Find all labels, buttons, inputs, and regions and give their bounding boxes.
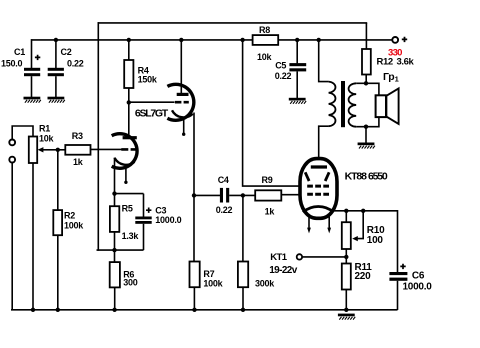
wire secondary bottom to speaker: [356, 117, 379, 127]
wire B+ rail down to C5: [296, 40, 298, 64]
svg-text:6SL7GT: 6SL7GT: [135, 108, 169, 120]
wire secondary top to speaker: [356, 83, 379, 95]
svg-text:C6: C6: [412, 270, 425, 281]
wire R4 bottom to V1a plate node: [128, 88, 130, 102]
resistor R12 (3.6k): [362, 49, 415, 75]
node C4/R9/300k junction: [241, 193, 245, 197]
wire feedback net: right vertical down to R12 top: [365, 23, 367, 50]
wire lower junction horizontal (feedback / R5 / C3 / R6): [97, 249, 144, 251]
svg-text:Гр: Гр: [383, 71, 394, 83]
wire KT88 cathode to R10/C6: [334, 210, 398, 212]
capacitor C3 (1000.0 electrolytic): [135, 194, 181, 251]
wire R5 bottom to lower junction: [114, 232, 116, 251]
resistor R8 (10k): [253, 25, 279, 62]
svg-text:1.3k: 1.3k: [122, 231, 140, 241]
wire KT1 terminal to R10/R11 junction: [302, 256, 346, 258]
wire from bottom input terminal to ground bus: [11, 163, 13, 311]
label + at supply terminal: [402, 37, 407, 42]
wire B+ rail right segment (R8 right to +330 terminal): [278, 39, 393, 41]
node screen feed junction on B+ rail: [240, 38, 244, 42]
wire C4/R9 node down to 300k resistor: [242, 195, 244, 261]
triode V1b cathode stub with dot: [182, 119, 185, 135]
svg-text:220: 220: [355, 271, 372, 282]
wire V1b output to C4 left plate: [194, 194, 220, 196]
junction secondary bottom-ground: [364, 125, 368, 129]
resistor R7 (100k): [190, 262, 224, 289]
junction R4-B+ rail: [127, 38, 131, 42]
wire 300k bottom to ground bus: [242, 287, 244, 310]
wire R6 bottom to ground bus: [114, 287, 116, 309]
svg-text:1000.0: 1000.0: [155, 215, 181, 225]
label KT88 6550: [345, 170, 388, 182]
svg-text:10k: 10k: [257, 52, 273, 62]
triode V1a envelope: [112, 134, 137, 169]
label KT1: [270, 252, 288, 263]
wire B+ rail down to transformer primary top: [319, 40, 329, 82]
wire C5 bottom to ground: [296, 71, 298, 98]
wire cathode junction down to R10: [345, 211, 347, 223]
wire C6 bottom to ground bus: [397, 281, 399, 310]
svg-text:C2: C2: [61, 47, 72, 57]
svg-text:R5: R5: [122, 204, 133, 214]
wire feedback net: top horizontal rail: [98, 22, 368, 24]
pentode V2 heater lead arrows: [307, 217, 331, 234]
capacitor C6 (1000.0 electrolytic): [389, 264, 432, 293]
node wiper junction (R1 wiper / R2 / R3): [56, 148, 60, 152]
label 6SL7GT: [135, 108, 169, 120]
capacitor C4 (0.22): [216, 175, 233, 215]
junction cathode-R10 wiper: [361, 209, 365, 213]
capacitor C2 (0.22): [48, 47, 84, 76]
wire R9 right to KT88 control grid: [281, 194, 307, 196]
triode V1b plate: [177, 93, 189, 96]
label Гр1: [383, 71, 399, 83]
wire screen feed down and right to KT88 screen grid: [243, 40, 307, 186]
triode V1a grid (dashed): [121, 148, 137, 151]
svg-text:150k: 150k: [138, 75, 158, 85]
wire B+ rail left segment (C1 to R8 left): [32, 39, 254, 41]
wire junction down to R6 top: [114, 250, 116, 262]
wire R2 bottom to ground bus: [57, 235, 59, 310]
capacitor C1 (150.0 electrolytic): [1, 47, 40, 76]
wire C1 bottom plate to ground: [31, 76, 33, 97]
junction secondary top-R12: [364, 81, 368, 85]
junction cathode-R10 top: [344, 209, 348, 213]
terminal +330V supply: [392, 37, 398, 43]
junction R7-ground bus: [192, 308, 196, 312]
svg-text:150.0: 150.0: [1, 58, 23, 68]
ground symbol under C5: [289, 98, 306, 104]
ground symbol under C1: [24, 97, 41, 103]
wire wiper junction down to R2 top: [57, 150, 59, 211]
resistor 300k: [238, 262, 275, 289]
resistor R3 (1k): [65, 131, 90, 167]
triode V1b envelope: [167, 84, 193, 120]
transformer T1 primary winding: [329, 82, 336, 127]
wire junction down to R5: [114, 194, 116, 207]
svg-text:1k: 1k: [73, 157, 84, 167]
capacitor C5 (0.22): [275, 60, 306, 80]
svg-text:1000.0: 1000.0: [403, 282, 433, 293]
wire V1b output lead down to C4 node: [193, 113, 195, 196]
terminal KT1 test point: [297, 254, 302, 259]
junction C5-B+ rail: [295, 38, 299, 42]
resistor R11 (220): [342, 262, 372, 289]
svg-text:19-22v: 19-22v: [269, 265, 298, 276]
svg-text:100k: 100k: [64, 220, 84, 230]
svg-text:100k: 100k: [203, 279, 223, 289]
svg-text:6550: 6550: [368, 170, 388, 182]
input terminal top: [9, 140, 15, 146]
svg-text:R1: R1: [39, 124, 50, 134]
wire secondary bottom to ground: [365, 127, 367, 143]
node V1a plate / V1b grid junction: [127, 100, 131, 104]
svg-text:R2: R2: [64, 210, 75, 220]
wire R1 bottom to ground bus: [32, 163, 34, 310]
resistor R5 (1.3k): [110, 204, 139, 242]
wire R12 bottom to secondary top: [365, 75, 367, 84]
node V1a cathode / R5 / C3 top junction: [112, 191, 116, 195]
resistor R9 (1k): [255, 175, 281, 216]
wire B+ rail down to C1 top plate: [31, 39, 33, 68]
triode V1a plate: [123, 136, 137, 139]
pentode V2 cathode: [303, 206, 334, 212]
pentode V2 beam plates: [305, 172, 329, 181]
wire V1a cathode lead down to R5 node: [114, 158, 116, 194]
svg-text:10k: 10k: [39, 134, 55, 144]
R10 wiper arm with arrow: [352, 211, 363, 241]
wire C2 bottom plate to ground: [55, 76, 57, 97]
svg-text:C4: C4: [218, 175, 229, 185]
resistor R10 (100 rheostat): [342, 222, 385, 249]
junction C2-B+ rail: [54, 38, 58, 42]
pentode V2 screen grid (dashed): [307, 185, 329, 188]
junction C4 left node: [192, 193, 196, 197]
wire R7 bottom to ground bus: [193, 287, 195, 310]
svg-text:300: 300: [123, 278, 138, 288]
wire C4 left node down to R7 top: [193, 195, 195, 261]
pentode V2 plate: [311, 165, 327, 168]
svg-text:R8: R8: [259, 25, 270, 35]
transformer T1 secondary winding: [349, 83, 357, 126]
svg-text:330: 330: [388, 47, 402, 58]
svg-text:1: 1: [395, 75, 399, 84]
junction R1-ground bus: [31, 308, 35, 312]
resistor R4 (150k): [124, 60, 158, 88]
resistor R6 (300): [110, 262, 138, 288]
wire V1b plate lead up to B+ rail: [180, 40, 182, 93]
svg-text:300k: 300k: [255, 279, 275, 289]
resistor R1 (10k volume potentiometer): [29, 124, 55, 164]
node KT1 test point junction: [344, 255, 348, 259]
transformer T1 core: [341, 81, 345, 127]
svg-text:0.22: 0.22: [275, 71, 292, 81]
wire from top input terminal to R1 top: [12, 126, 33, 139]
wire transformer primary bottom to KT88 plate: [319, 126, 329, 166]
R1 wiper arrow: [38, 147, 58, 152]
svg-text:KT1: KT1: [270, 252, 288, 263]
triode V1b cathode: [172, 110, 193, 117]
svg-text:0.22: 0.22: [216, 205, 233, 215]
wire R3 right to triode V1a grid: [91, 148, 122, 150]
wire B+ rail down to C2 top plate: [55, 40, 57, 68]
svg-text:R9: R9: [262, 175, 273, 185]
wire B+ rail down to R4 top: [128, 40, 130, 60]
svg-text:1k: 1k: [265, 206, 276, 216]
speaker Гр1 cone: [386, 88, 398, 124]
wire C4 right plate to R9 node: [229, 194, 255, 196]
label 330 (red): [388, 47, 402, 58]
triode V1a cathode stub with dot: [124, 167, 127, 184]
wire wiper junction to R3 left: [58, 149, 66, 151]
junction R2-ground bus: [56, 308, 60, 312]
junction 300k-ground bus: [241, 308, 245, 312]
svg-text:R3: R3: [72, 131, 83, 141]
svg-text:100: 100: [367, 235, 384, 246]
junction V1b plate-B+ rail: [179, 38, 183, 42]
wire R11 bottom to ground bus: [345, 290, 347, 310]
junction transformer primary-B+ rail: [317, 38, 321, 42]
wire R10 bottom to KT1 node: [345, 249, 347, 257]
speaker Гр1 magnet: [376, 95, 386, 117]
junction R11-ground bus: [344, 308, 348, 312]
svg-text:C5: C5: [275, 60, 286, 70]
ground symbol under C2: [48, 97, 65, 103]
input terminal bottom: [9, 157, 15, 163]
node R5/R6/feedback junction: [112, 248, 116, 252]
junction R6-ground bus: [112, 308, 116, 312]
wire V1a plate lead: [128, 102, 130, 136]
svg-text:C1: C1: [14, 47, 25, 57]
wire KT1 node down to R11: [345, 257, 347, 264]
resistor R2 (100k): [53, 210, 84, 235]
label 19-22v: [269, 265, 298, 276]
wire R5 top junction to C3 top lead: [115, 193, 144, 195]
wire feedback net: vertical from top rail down to R5/R6 junction: [97, 22, 99, 251]
ground symbol under transformer secondary: [358, 143, 375, 149]
wire ground bus along bottom: [11, 309, 398, 311]
wire V1a plate node to V1b grid: [129, 101, 175, 103]
ground symbol under ground bus: [338, 314, 355, 320]
triode V1b grid (dashed): [175, 101, 189, 104]
pentode V2 control grid (dashed): [307, 193, 329, 196]
triode V1a cathode: [115, 158, 135, 165]
wire cathode line down to C6: [397, 210, 399, 272]
svg-text:KT88: KT88: [345, 170, 368, 182]
pentode V2 KT88 envelope: [300, 159, 337, 219]
svg-text:0.22: 0.22: [67, 58, 84, 68]
